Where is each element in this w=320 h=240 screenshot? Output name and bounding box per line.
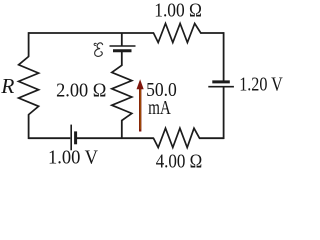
current arrow head — [137, 79, 144, 89]
wire middle branch from top — [121, 33, 123, 46]
wire left branch lower — [28, 115, 30, 139]
svg-text:1.20 V: 1.20 V — [239, 73, 283, 95]
label EMF script E — [95, 43, 103, 57]
wire bottom resistor to bottom-right corner — [200, 137, 224, 139]
wire right branch lower — [223, 87, 225, 139]
resistor R4 4.00 ohm (bottom) — [154, 128, 200, 147]
wire EMF battery to middle resistor — [121, 51, 123, 66]
battery EMF short plate — [113, 49, 132, 52]
battery V2 1.20 V long plate — [208, 86, 234, 88]
svg-text:1.00 V: 1.00 V — [48, 147, 99, 169]
svg-text:mA: mA — [148, 97, 171, 119]
wire top resistor to top-right corner — [201, 32, 224, 34]
resistor R (left) — [19, 57, 39, 115]
resistor R1 1.00 ohm (top) — [154, 24, 201, 43]
wire bottom-left to battery — [29, 137, 71, 139]
battery V1 1.00 V short plate — [74, 131, 77, 144]
wire left branch upper — [28, 32, 30, 56]
svg-text:2.00 Ω: 2.00 Ω — [56, 80, 106, 102]
wire top-left to middle junction — [29, 32, 154, 34]
battery V1 1.00 V long plate — [70, 125, 72, 151]
wire middle resistor to bottom — [121, 121, 123, 139]
resistor R2 2.00 ohm (middle) — [112, 65, 132, 120]
wire battery to bottom resistor — [76, 137, 153, 139]
wire right branch upper — [223, 32, 225, 81]
svg-text:4.00 Ω: 4.00 Ω — [156, 150, 203, 171]
battery EMF long plate — [110, 45, 136, 47]
battery V2 1.20 V short plate — [212, 80, 230, 83]
current arrow 50.0 mA shaft — [139, 88, 141, 132]
svg-text:R: R — [0, 74, 14, 98]
svg-text:1.00 Ω: 1.00 Ω — [154, 0, 202, 22]
